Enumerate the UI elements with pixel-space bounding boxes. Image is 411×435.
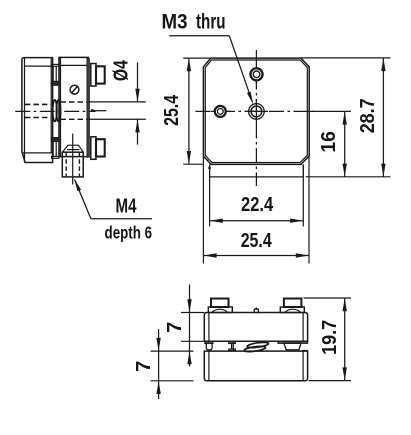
svg-text:19.7: 19.7 xyxy=(319,320,341,355)
svg-text:thru: thru xyxy=(196,11,226,34)
svg-text:16: 16 xyxy=(318,131,340,153)
svg-text:25.4: 25.4 xyxy=(241,230,273,252)
svg-text:22.4: 22.4 xyxy=(241,194,274,216)
svg-text:Ø4: Ø4 xyxy=(111,59,133,81)
svg-text:M4: M4 xyxy=(116,195,138,217)
svg-text:25.4: 25.4 xyxy=(161,94,183,126)
svg-text:depth 6: depth 6 xyxy=(105,223,153,243)
svg-text:28.7: 28.7 xyxy=(357,98,379,133)
svg-text:7: 7 xyxy=(164,322,186,333)
svg-text:7: 7 xyxy=(133,361,155,372)
svg-text:M3: M3 xyxy=(162,11,188,34)
